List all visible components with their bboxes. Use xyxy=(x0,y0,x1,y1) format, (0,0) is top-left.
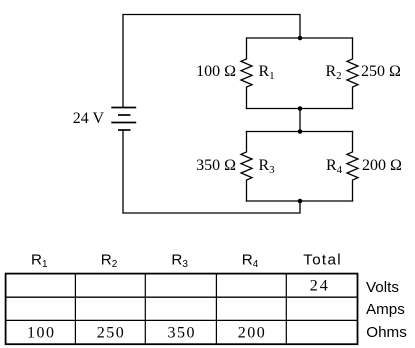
table column header R1 xyxy=(31,251,48,269)
label 250 ohm (R2 value) xyxy=(361,63,401,80)
label 24 V (battery value) xyxy=(73,110,105,127)
node A (top junction) xyxy=(298,36,303,41)
wire node D to battery negative (bottom return) xyxy=(123,131,300,214)
label R4 (designator) xyxy=(326,157,343,176)
resistor R4 xyxy=(347,132,358,202)
node D (bottom junction) xyxy=(298,199,303,204)
table cell value 200 (R4 ohms) xyxy=(238,325,267,342)
svg-text:R2: R2 xyxy=(326,63,342,82)
label 200 ohm (R4 value) xyxy=(362,157,402,174)
svg-text:R1: R1 xyxy=(259,63,275,82)
resistor R1 xyxy=(241,38,252,109)
table column header R2 xyxy=(101,251,118,269)
table row label Amps xyxy=(366,301,405,318)
label R1 (designator) xyxy=(259,63,275,82)
svg-text:R3: R3 xyxy=(259,157,276,176)
svg-text:Ohms: Ohms xyxy=(366,324,407,341)
wire battery positive to node A (top rail) xyxy=(123,15,300,108)
label 350 ohm (R3 value) xyxy=(196,157,236,174)
battery B1 (24 V source) xyxy=(111,108,136,131)
table cell value 100 (R1 ohms) xyxy=(27,325,56,342)
svg-text:Amps: Amps xyxy=(366,301,405,318)
svg-text:R3: R3 xyxy=(171,251,188,269)
svg-text:R1: R1 xyxy=(31,251,48,269)
table row gridline 2 xyxy=(6,319,358,321)
svg-text:100: 100 xyxy=(27,325,56,342)
table row gridline 1 xyxy=(6,296,358,298)
wire top bank rail (R1-R2 top) xyxy=(247,37,353,39)
table row label Volts xyxy=(366,279,399,296)
svg-text:Total: Total xyxy=(303,251,342,268)
svg-text:R2: R2 xyxy=(101,251,118,269)
table outer border xyxy=(6,274,358,345)
table column line 4 xyxy=(285,274,287,345)
svg-text:R4: R4 xyxy=(242,251,259,269)
table column line 2 xyxy=(144,274,146,345)
table column header Total xyxy=(303,251,342,268)
table row label Ohms xyxy=(366,324,407,341)
svg-text:350: 350 xyxy=(167,325,196,342)
svg-text:R4: R4 xyxy=(326,157,343,176)
svg-text:100 Ω: 100 Ω xyxy=(196,63,236,80)
table column line 1 xyxy=(74,274,76,345)
table column line 3 xyxy=(215,274,217,345)
resistor R3 xyxy=(241,132,252,202)
svg-text:350 Ω: 350 Ω xyxy=(196,157,236,174)
table cell value 24 (Total volts) xyxy=(310,278,330,295)
svg-text:250: 250 xyxy=(97,325,126,342)
label R3 (designator) xyxy=(259,157,276,176)
table column header R3 xyxy=(171,251,188,269)
wire top bank bottom rail (R1-R2 bottom) xyxy=(247,108,353,110)
svg-text:24: 24 xyxy=(310,278,330,295)
resistor R2 xyxy=(347,38,358,109)
wire node B to node C (middle link) xyxy=(299,109,301,132)
label 100 ohm (R1 value) xyxy=(196,63,236,80)
svg-text:250 Ω: 250 Ω xyxy=(361,63,401,80)
node B (between banks, top) xyxy=(298,106,303,111)
wire bottom bank top rail (R3-R4 top) xyxy=(247,131,353,133)
svg-text:200: 200 xyxy=(238,325,267,342)
svg-text:24 V: 24 V xyxy=(73,110,105,127)
wire bottom bank bottom rail (R3-R4 bottom) xyxy=(247,200,353,202)
table cell value 250 (R2 ohms) xyxy=(97,325,126,342)
svg-text:200 Ω: 200 Ω xyxy=(362,157,402,174)
label R2 (designator) xyxy=(326,63,342,82)
table cell value 350 (R3 ohms) xyxy=(167,325,196,342)
table column header R4 xyxy=(242,251,259,269)
svg-text:Volts: Volts xyxy=(366,279,399,296)
node C (between banks, bottom) xyxy=(298,129,303,134)
